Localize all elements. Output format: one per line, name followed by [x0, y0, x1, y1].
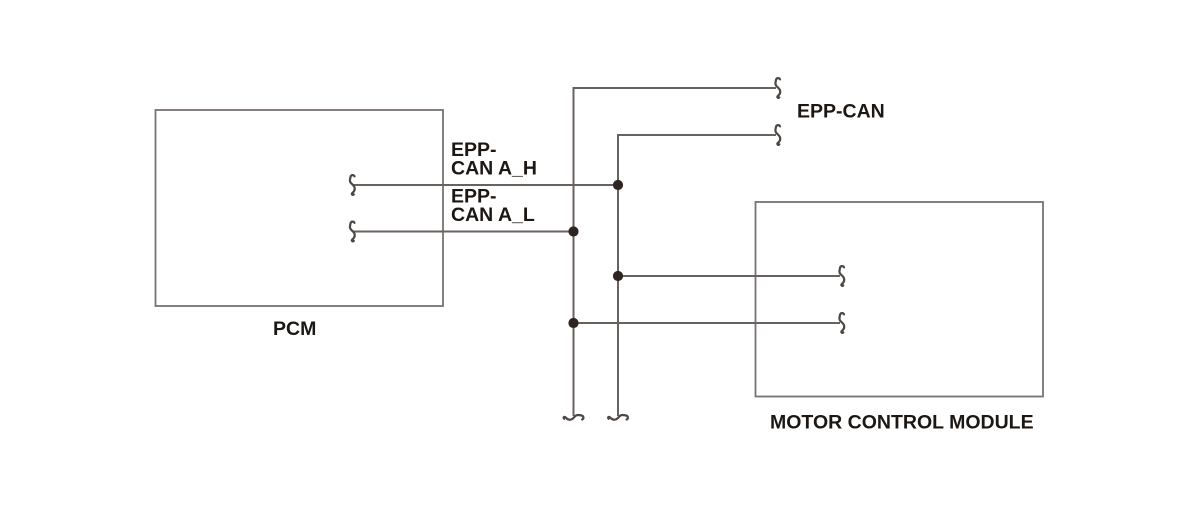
- svg-text:CAN A_L: CAN A_L: [451, 204, 535, 226]
- svg-text:CAN A_H: CAN A_H: [451, 158, 537, 180]
- svg-text:PCM: PCM: [273, 318, 316, 340]
- svg-text:MOTOR CONTROL MODULE: MOTOR CONTROL MODULE: [770, 412, 1034, 434]
- svg-text:EPP-CAN: EPP-CAN: [797, 101, 885, 123]
